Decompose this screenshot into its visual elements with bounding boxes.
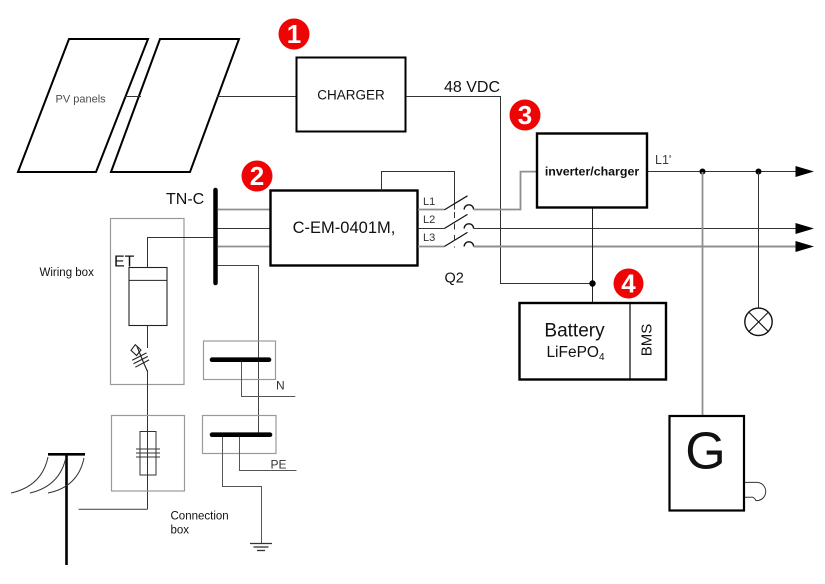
svg-text:L1': L1' — [655, 153, 671, 167]
arrow L3 — [796, 241, 815, 252]
svg-text:N: N — [276, 379, 285, 393]
earth rod — [11, 454, 85, 565]
PV panel 1 — [18, 39, 148, 172]
svg-text:LiFePO4: LiFePO4 — [546, 344, 605, 363]
wire ET down — [147, 326, 149, 349]
switch Q2 pole L2 — [444, 214, 473, 228]
linkage dashed Q2 — [454, 212, 456, 248]
svg-text:Q2: Q2 — [445, 271, 464, 287]
callout 2 — [242, 161, 273, 192]
wire ET to busbar — [148, 238, 214, 268]
lamp — [745, 308, 772, 335]
wire busbar to N and PE bars — [218, 266, 259, 438]
svg-text:1: 1 — [287, 19, 301, 49]
svg-text:2: 2 — [250, 161, 264, 191]
svg-text:Connection: Connection — [171, 511, 229, 523]
svg-text:inverter/charger: inverter/charger — [545, 165, 640, 179]
svg-text:G: G — [685, 423, 725, 481]
energy meter C-EM-0401M — [271, 191, 418, 266]
arrow L1' — [796, 166, 815, 177]
wire phase L2 — [474, 228, 796, 230]
svg-text:L1: L1 — [423, 196, 435, 208]
svg-text:L3: L3 — [423, 232, 435, 244]
switch Q2 pole L3 — [444, 232, 473, 246]
wire L1 to inverter input — [474, 172, 537, 210]
svg-text:CHARGER: CHARGER — [317, 88, 385, 103]
svg-text:TN-C: TN-C — [166, 191, 204, 208]
neutral busbar — [212, 357, 269, 362]
svg-text:BMS: BMS — [639, 324, 656, 357]
PE box — [203, 416, 277, 454]
junction dot L1' b — [756, 169, 762, 175]
wire inverter DC to battery — [592, 209, 594, 304]
wire busbar to meter L3 — [218, 246, 271, 248]
generator shaft bump — [745, 482, 766, 500]
wire PE to ground — [223, 437, 262, 543]
wire meter L2 stub — [418, 228, 444, 230]
junction dot L1' a — [700, 169, 706, 175]
surge arrester — [131, 345, 149, 372]
callout 1 — [279, 19, 310, 50]
switch Q2 pole L1 — [444, 196, 473, 210]
junction dot DC bus — [589, 280, 595, 286]
wire L1' output — [648, 171, 797, 173]
wire meter control to switch — [382, 172, 455, 210]
wire charger to DC bus — [406, 97, 589, 284]
wire PE output — [240, 437, 297, 471]
callout 3 — [510, 100, 541, 131]
svg-text:PV panels: PV panels — [56, 94, 107, 106]
ground symbol — [250, 544, 272, 551]
svg-text:4: 4 — [621, 269, 636, 299]
battery box — [520, 303, 667, 380]
current transformer — [136, 432, 160, 476]
wire N output — [242, 362, 296, 397]
wire arrester to connection box — [147, 370, 149, 509]
inverter/charger box — [537, 134, 647, 208]
svg-text:L2: L2 — [423, 214, 435, 226]
callout 4 — [614, 269, 644, 299]
charger box — [297, 58, 406, 132]
wire panel1 to panel2 — [125, 96, 141, 98]
wiring box — [111, 219, 185, 385]
PE busbar — [212, 432, 270, 437]
earthing transformer ET — [129, 268, 167, 326]
wire panel2 to charger — [217, 96, 296, 98]
wire busbar to meter L1 — [218, 209, 271, 211]
svg-text:box: box — [171, 525, 190, 537]
wire connection box to earth rod — [79, 508, 148, 510]
connection box — [112, 416, 185, 492]
wire busbar to meter L2 — [218, 228, 271, 230]
arrow L2 — [796, 223, 815, 234]
svg-text:Wiring box: Wiring box — [40, 267, 95, 279]
wire phase L3 — [474, 246, 796, 248]
wire meter L3 stub — [418, 246, 444, 248]
neutral box — [204, 341, 276, 380]
busbar TN-C — [213, 190, 218, 283]
wire meter L1 stub — [418, 209, 444, 211]
svg-text:48 VDC: 48 VDC — [444, 79, 500, 96]
svg-text:PE: PE — [271, 458, 287, 472]
wire to lamp — [758, 172, 760, 308]
PV panel 2 — [111, 39, 239, 172]
svg-text:3: 3 — [518, 100, 532, 130]
generator G — [670, 416, 745, 511]
svg-text:Battery: Battery — [544, 321, 605, 342]
svg-text:C-EM-0401M,: C-EM-0401M, — [293, 219, 396, 237]
wire to generator — [702, 172, 704, 416]
